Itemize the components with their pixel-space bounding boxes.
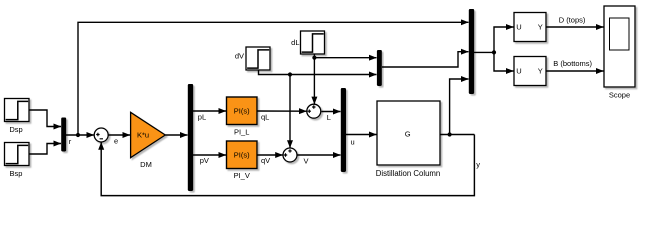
- svg-text:qV: qV: [261, 156, 270, 165]
- wire qV: [257, 154, 283, 156]
- step source Dsp: [5, 99, 30, 122]
- svg-text:pV: pV: [200, 156, 209, 165]
- controller PI_L: [227, 97, 258, 125]
- wire to selector U Y 1: [494, 27, 514, 52]
- svg-text:U: U: [516, 67, 521, 76]
- plant G Distillation Column: [377, 101, 440, 165]
- step source dL: [301, 31, 325, 54]
- svg-text:D (tops): D (tops): [559, 15, 586, 24]
- node dL junction: [312, 56, 316, 60]
- mux small (disturbances): [377, 50, 382, 86]
- wire dL to sum L: [313, 54, 315, 104]
- svg-text:dL: dL: [291, 38, 299, 47]
- wire dV to sum V: [289, 75, 291, 148]
- sum junction S1: [94, 128, 108, 142]
- wire r to big mux top line: [78, 22, 469, 135]
- wire to selector U Y 2: [494, 52, 514, 71]
- svg-text:V: V: [304, 157, 309, 166]
- controller PI_V: [227, 141, 258, 169]
- node out junction: [492, 50, 496, 54]
- svg-text:B (bottoms): B (bottoms): [553, 59, 592, 68]
- svg-text:y: y: [476, 160, 480, 169]
- svg-text:K*u: K*u: [137, 131, 149, 140]
- wire pL: [193, 110, 226, 112]
- wire small mux to big mux: [382, 52, 469, 67]
- svg-text:L: L: [327, 113, 331, 122]
- svg-text:Y: Y: [538, 23, 543, 32]
- wire pV: [193, 154, 226, 156]
- svg-text:Y: Y: [538, 67, 543, 76]
- wire Dsp to r-mux: [29, 110, 61, 127]
- svg-text:PI(s): PI(s): [234, 107, 250, 116]
- svg-text:pL: pL: [198, 112, 206, 121]
- sum junction V: [283, 148, 297, 162]
- wire r to sum1: [66, 134, 94, 136]
- wire B bottoms to scope: [546, 70, 604, 72]
- svg-text:u: u: [351, 137, 355, 146]
- sum junction L: [307, 104, 321, 118]
- svg-text:Distillation Column: Distillation Column: [376, 169, 441, 178]
- scope block: [604, 6, 635, 87]
- selector U Y 2: [514, 57, 546, 86]
- svg-text:qL: qL: [261, 112, 269, 121]
- svg-text:PI_L: PI_L: [234, 127, 249, 136]
- wire y to big mux: [450, 79, 469, 135]
- wire L to u-mux: [321, 111, 340, 113]
- node y junction: [448, 132, 452, 136]
- svg-text:e: e: [114, 137, 118, 146]
- svg-text:dV: dV: [235, 51, 244, 60]
- node dV junction: [288, 72, 292, 76]
- mux u: [341, 88, 346, 172]
- wire dL to small mux: [314, 57, 376, 59]
- wire e sum1 to DM: [108, 134, 130, 136]
- step source Bsp: [5, 143, 30, 166]
- wire D tops to scope: [546, 26, 604, 28]
- wire u to G: [346, 134, 377, 136]
- svg-text:PI(s): PI(s): [234, 151, 250, 160]
- svg-text:Scope: Scope: [609, 91, 630, 100]
- svg-text:G: G: [405, 130, 411, 139]
- wire dV to small mux: [259, 70, 377, 75]
- step source dV: [246, 47, 270, 70]
- svg-text:Bsp: Bsp: [10, 169, 23, 178]
- wire V to u-mux: [297, 154, 340, 156]
- svg-text:U: U: [516, 23, 521, 32]
- wire Bsp to r-mux: [29, 144, 61, 155]
- wire qL: [257, 110, 307, 112]
- mux r: [61, 118, 66, 152]
- svg-text:PI_V: PI_V: [234, 171, 250, 180]
- wire big mux out: [474, 51, 494, 53]
- wire G output: [440, 134, 474, 136]
- node r junction: [76, 133, 80, 137]
- demux bar: [188, 84, 193, 191]
- wire DM to demux: [165, 134, 187, 136]
- mux big: [469, 9, 474, 94]
- selector U Y 1: [514, 13, 546, 42]
- wire y feedback to sum1: [101, 135, 474, 196]
- svg-text:Dsp: Dsp: [9, 125, 22, 134]
- svg-text:DM: DM: [140, 160, 152, 169]
- gain DM: [131, 112, 166, 157]
